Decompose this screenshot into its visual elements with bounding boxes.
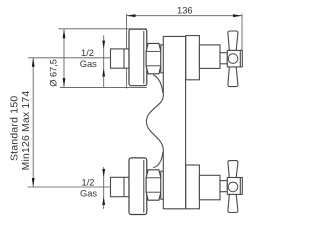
dimension 136 right extension line [241, 14, 243, 50]
top union hex nut [146, 43, 161, 73]
bottom valve stem [220, 181, 227, 192]
dimension 136 line [127, 14, 242, 89]
bottom valve extension [199, 175, 220, 200]
svg-text:Min126 Max 174: Min126 Max 174 [21, 91, 32, 171]
bottom handle circle [228, 182, 238, 192]
dimension 1/2 gas bottom upper arrow [102, 169, 105, 177]
svg-text:Gas: Gas [80, 189, 97, 199]
top valve bonnet [186, 36, 200, 80]
dimension 1/2 gas bottom lower arrow [102, 197, 105, 205]
bottom handle lower arm [228, 194, 238, 212]
bottom pipe thread line [123, 177, 125, 196]
dimension 1/2 gas bottom line [103, 167, 105, 209]
dimension standard150 bottom arrow [32, 178, 35, 187]
dimension D67.5 top arrow [63, 29, 66, 38]
svg-text:1/2: 1/2 [82, 177, 95, 187]
svg-text:Ø 67,5: Ø 67,5 [49, 59, 59, 87]
top valve extension [199, 45, 220, 69]
dimension 1/2 gas top line [103, 35, 105, 87]
dimension 136 right arrow [233, 14, 242, 17]
top inlet pipe 1/2 gas [111, 49, 130, 68]
top handle lower arm [228, 67, 238, 87]
bottom connection centerline leader [28, 186, 111, 188]
bottom inlet pipe 1/2 gas [111, 177, 130, 196]
bottom valve bonnet [186, 165, 200, 209]
bottom wall flange [129, 158, 147, 215]
top handle upper arm [228, 31, 238, 50]
dimension D67.5 line [58, 29, 146, 88]
top wall flange [129, 29, 147, 85]
dimension standard150 top arrow [32, 58, 35, 67]
dimension 1/2 gas top lower arrow [102, 68, 105, 76]
svg-text:Standard 150: Standard 150 [9, 96, 20, 161]
bottom union hex nut [146, 170, 161, 200]
top valve stem [220, 53, 227, 64]
mixer body column with S-neck [146, 36, 185, 208]
svg-text:136: 136 [177, 6, 193, 16]
bottom handle upper arm [228, 161, 238, 178]
body upper flare curve [153, 75, 163, 93]
top inlet boss [161, 45, 164, 73]
bottom inlet boss [161, 171, 164, 199]
top connection centerline leader [28, 57, 111, 59]
dimension 136 left extension line [126, 14, 128, 89]
svg-text:1/2: 1/2 [81, 48, 94, 58]
body lower flare curve [153, 152, 163, 168]
dimension 136 left arrow [127, 14, 136, 17]
top handle circle [228, 54, 238, 64]
dimension standard150 line [28, 58, 111, 187]
dimension D67.5 top extension line [58, 28, 146, 30]
dimension 1/2 gas top upper arrow [102, 41, 105, 49]
svg-text:Gas: Gas [80, 59, 97, 69]
dimension D67.5 bottom extension line [60, 86, 147, 88]
dimension D67.5 bottom arrow [63, 78, 66, 87]
top pipe thread line [123, 49, 125, 68]
top handle hub [227, 50, 242, 67]
bottom handle hub [227, 178, 242, 195]
